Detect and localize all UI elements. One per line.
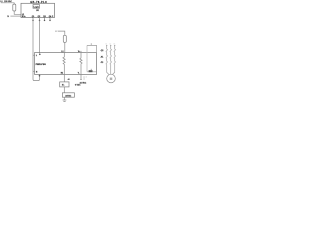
svg-text:A1: A1 [68, 78, 70, 81]
I/O label [36, 10, 39, 12]
node 24 VDC label [75, 81, 87, 86]
terminal X1 box [62, 93, 74, 97]
junction dot PSU bottom entry [39, 75, 41, 77]
aux labels below [83, 76, 87, 80]
node N label [7, 16, 9, 18]
wire PLC Q1 down and around to PSU bottom pin [33, 20, 40, 80]
three phase line L2 [110, 45, 112, 74]
wire F2 feed [58, 31, 65, 35]
svg-text:aux 1: aux 1 [83, 76, 87, 78]
relay K1 box [60, 82, 69, 87]
node A1 label [68, 78, 70, 81]
PLC title GB-78-PLC [30, 1, 47, 4]
svg-text:M: M [110, 77, 113, 81]
wire N to PLC [10, 15, 21, 17]
svg-text:PWR-PSU: PWR-PSU [36, 64, 47, 66]
svg-text:N1: N1 [61, 73, 63, 75]
pin stub top of aux box [90, 43, 92, 45]
PSU top pin labels [61, 51, 81, 53]
ground [63, 100, 67, 101]
wire PSU V- output down [80, 74, 82, 79]
pin 2 stub [39, 18, 41, 21]
contact element on aux box bottom [90, 69, 92, 70]
svg-text:F2: F2 [55, 31, 57, 33]
svg-text:I/O: I/O [36, 10, 39, 12]
svg-text:24VDC: 24VDC [65, 94, 72, 97]
svg-text:GB-78-PLC: GB-78-PLC [30, 1, 47, 4]
svg-text:N: N [7, 16, 9, 18]
svg-text:L2: L2 [110, 44, 112, 46]
PSU box PWR-PSU [35, 53, 97, 75]
stub PSU left pin 1 [33, 54, 35, 56]
terminal ticks three phase tops [106, 44, 115, 46]
svg-text:Logic: Logic [34, 7, 40, 9]
wire fuse to PLC pin L [14, 11, 21, 14]
svg-text:0 VDC: 0 VDC [75, 85, 81, 87]
pin labels bottom (outputs) [32, 15, 54, 18]
svg-text:-K1: -K1 [100, 56, 103, 58]
pin 4 stub [49, 18, 51, 21]
wire PSU N1 down to relay K1 [63, 74, 65, 82]
pin terminal dots [32, 20, 51, 22]
resistor R2 (PSU internal branch 2 zigzag) [80, 51, 82, 75]
fuse F2 [63, 35, 66, 42]
overload F3 slashes [106, 61, 116, 64]
motor M1 circle [107, 74, 116, 83]
wire F2 to PSU top [64, 42, 66, 52]
wire L1 feed [1, 3, 14, 4]
Logic inner box [33, 5, 40, 9]
svg-text:L1: L1 [61, 51, 63, 53]
PSU left pin labels [36, 55, 38, 73]
node L1 mains label [0, 0, 12, 3]
fuse F1 [13, 4, 16, 11]
wire PLC Q2 down to PSU top pin [39, 20, 41, 53]
labels Q1 K1 F3 [100, 50, 103, 64]
resistor R1 (PSU internal branch 1 zigzag) [63, 53, 65, 75]
breaker Q1 slashes [106, 49, 116, 52]
aux box (right inner) [87, 45, 97, 71]
contactor K1 slashes [106, 55, 116, 58]
three phase line L1 [107, 45, 110, 75]
svg-text:24 VDC: 24 VDC [80, 81, 87, 84]
phase labels top [106, 44, 116, 46]
wire X1 to ground [63, 97, 65, 100]
svg-text:L3: L3 [114, 44, 116, 46]
svg-text:-F3: -F3 [100, 62, 103, 64]
svg-text:L: L [36, 55, 38, 57]
svg-text:K1: K1 [62, 84, 65, 86]
stub PSU left pin 2 [33, 70, 35, 72]
pin 3 stub [44, 18, 46, 21]
node F2 label [55, 31, 57, 33]
junction dot PSU top entry [39, 54, 41, 56]
PSU bottom pin labels [61, 73, 80, 75]
three phase line L3 [112, 45, 115, 75]
terminal tip 24VDC [80, 78, 82, 80]
pin labels left (L, N) [22, 14, 26, 18]
svg-text:-Q1: -Q1 [100, 50, 103, 52]
PLC U1 box [21, 3, 55, 17]
svg-text:L1: L1 [106, 44, 108, 46]
svg-text:N: N [36, 71, 38, 73]
pin 1 stub [32, 18, 34, 21]
wire K1 to X1 [63, 87, 65, 93]
